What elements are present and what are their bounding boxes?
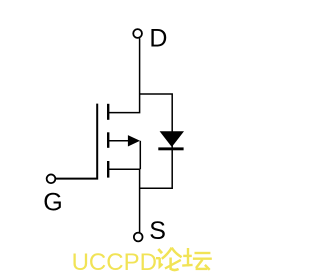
wire: gate vertical line and gate wire to G terminal [55,104,97,179]
node S terminal circle [134,233,143,242]
watermark glyph 坛 (drawn strokes) [182,248,212,270]
wire: source stub from MOSFET bottom bar and source vertical down to S terminal [108,169,139,232]
transistor Q1 channel bar (drain contact) [107,104,109,120]
diode D1 body diode (cathode bar) [158,147,183,150]
transistor Q1 body arrow (head) [128,135,140,146]
wire: body connection from arrow tip down to source wire [139,141,141,169]
svg-text:D: D [149,25,167,53]
svg-text:UCCPD: UCCPD [72,249,157,274]
diode D1 body diode (anode triangle) [160,131,184,147]
node G terminal circle [47,174,56,183]
node D terminal circle [133,29,142,38]
svg-text:S: S [149,217,166,245]
svg-text:G: G [43,189,62,217]
wire: drain vertical from D terminal down and drain stub to MOSFET top bar [108,38,139,112]
transistor Q1 channel bar (source contact) [107,161,109,178]
transistor Q1 body arrow (shaft) [108,140,129,142]
transistor Q1 channel bar (body contact) [107,132,109,148]
watermark glyph 论 (drawn strokes) [156,248,182,270]
wire: diode branch top (tee from drain wire), diode vertical, bottom branch back [140,94,173,188]
